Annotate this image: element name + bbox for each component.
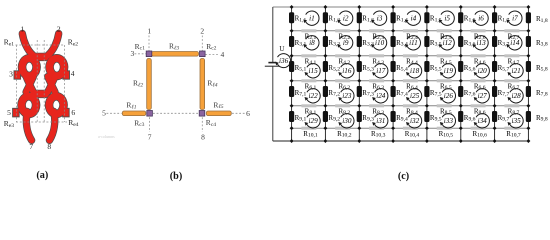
- svg-text:i18: i18: [410, 67, 420, 75]
- resistor R6,3: [369, 79, 384, 82]
- resistor R8,4: [403, 104, 418, 107]
- resistor R4,4: [403, 54, 418, 57]
- svg-text:6: 6: [246, 109, 250, 118]
- svg-text:i3: i3: [377, 15, 383, 23]
- column 3 stub to rail: [358, 128, 360, 141]
- svg-text:4: 4: [71, 69, 75, 78]
- svg-text:R4,7: R4,7: [508, 57, 520, 66]
- resistor R7,6: [458, 86, 463, 97]
- resistor R5,4: [391, 61, 396, 72]
- right link stroke A: [48, 77, 55, 93]
- node Rc4: [199, 111, 205, 117]
- resistor R10,7: [504, 127, 519, 130]
- mesh current i16: [338, 64, 354, 78]
- svg-text:Re2: Re2: [68, 38, 78, 48]
- node Rc3: [147, 111, 153, 117]
- battery long plate: [265, 65, 279, 67]
- svg-text:i22: i22: [309, 92, 319, 100]
- mesh current i26: [440, 89, 456, 103]
- column 1 wire: [291, 7, 293, 128]
- svg-text:R1,8: R1,8: [536, 15, 548, 24]
- dashed lead node 6: [232, 112, 246, 114]
- resistor R9,1: [289, 111, 294, 122]
- dashed lead node 4: [205, 53, 219, 55]
- node row6 col5: [425, 126, 429, 130]
- resistor R7,7: [492, 86, 497, 97]
- lead to terminal 8: [50, 112, 55, 141]
- svg-text:5: 5: [7, 108, 11, 117]
- resistor R6,2: [335, 79, 350, 82]
- node row1 col1: [290, 5, 294, 9]
- mesh current i27: [474, 89, 490, 103]
- resistor R7,1: [289, 86, 294, 97]
- svg-text:R8,6: R8,6: [474, 107, 486, 116]
- mesh current i23: [338, 89, 354, 103]
- resistor R3,2: [323, 36, 328, 47]
- left link stroke A outline: [26, 77, 33, 93]
- svg-text:R9,8: R9,8: [536, 114, 548, 123]
- svg-text:Rℓ4: Rℓ4: [207, 79, 217, 89]
- resistor R1,1: [289, 12, 294, 23]
- resistor R4,3: [369, 54, 384, 57]
- node row1 col3: [357, 5, 361, 9]
- left link stroke B: [26, 77, 33, 93]
- mesh current i3: [371, 11, 387, 25]
- left link stroke A: [26, 77, 33, 93]
- resistor R1,8: [526, 12, 531, 23]
- svg-text:Rc1: Rc1: [135, 42, 145, 52]
- resistor R8,3: [369, 104, 384, 107]
- svg-text:U: U: [279, 45, 285, 53]
- resistor R7,3: [357, 86, 362, 97]
- node row2 col1: [290, 29, 294, 33]
- svg-text:i29: i29: [309, 117, 319, 125]
- svg-text:R2,5: R2,5: [440, 32, 452, 41]
- resistor R2,1: [301, 29, 316, 32]
- resistor R9,6: [458, 111, 463, 122]
- node row2 col4: [391, 29, 395, 33]
- node row2 col8: [526, 29, 530, 33]
- mesh current i1: [303, 11, 319, 25]
- mesh current i15: [305, 64, 321, 78]
- svg-text:i7: i7: [512, 15, 518, 23]
- ring Re1 region left ring: [22, 58, 36, 76]
- svg-text:Rℓ1: Rℓ1: [126, 101, 136, 111]
- wire row4: [292, 80, 529, 82]
- svg-text:i35: i35: [512, 117, 522, 125]
- node row5 col8: [526, 104, 530, 108]
- svg-text:8: 8: [201, 132, 205, 141]
- resistor R4,5: [437, 54, 452, 57]
- resistor R9,5: [424, 111, 429, 122]
- svg-text:R10,1: R10,1: [303, 130, 318, 139]
- lead to terminal 1 outline: [22, 34, 33, 56]
- node row6 col2: [323, 126, 327, 130]
- svg-text:i15: i15: [309, 67, 319, 75]
- resistor R7,8: [526, 86, 531, 97]
- mesh current i2: [337, 11, 353, 25]
- svg-text:R10,4: R10,4: [405, 130, 420, 139]
- lead to terminal 7: [26, 112, 31, 141]
- resistor R4,6: [471, 54, 486, 57]
- resistor R10,4: [403, 127, 418, 130]
- node row2 col7: [493, 29, 497, 33]
- resistor R2,2: [335, 29, 350, 32]
- column 1 stub to rail: [291, 128, 293, 141]
- column 2 stub to rail: [324, 128, 326, 141]
- resistor R6,6: [471, 79, 486, 82]
- svg-text:R6,4: R6,4: [406, 82, 418, 91]
- resistor R1,3: [357, 12, 362, 23]
- resistor R4,7: [504, 54, 519, 57]
- resistor R7,4: [391, 86, 396, 97]
- node rail col2: [323, 139, 327, 143]
- svg-text:R3,8: R3,8: [536, 39, 548, 48]
- svg-text:2: 2: [57, 24, 61, 33]
- svg-text:R2,1: R2,1: [305, 32, 317, 41]
- svg-text:R5,8: R5,8: [536, 64, 548, 73]
- node row1 col2: [323, 5, 327, 9]
- mesh current i24: [372, 89, 388, 103]
- svg-text:R8,5: R8,5: [440, 107, 452, 116]
- mesh current i8: [303, 36, 319, 50]
- svg-text:3: 3: [9, 70, 13, 79]
- svg-text:R10,6: R10,6: [472, 130, 487, 139]
- lead to terminal 2: [48, 34, 59, 56]
- svg-text:R2,2: R2,2: [338, 32, 350, 41]
- svg-text:(a): (a): [36, 170, 48, 181]
- wire row2: [292, 30, 529, 32]
- mesh current i22: [305, 89, 321, 103]
- mesh current i7: [506, 11, 522, 25]
- left rail lower: [272, 67, 274, 141]
- ring left row2 outline: [22, 96, 36, 114]
- resistor R9,3: [357, 111, 362, 122]
- svg-text:i32: i32: [410, 117, 420, 125]
- svg-text:Re3: Re3: [4, 119, 14, 129]
- node rail col6: [459, 139, 463, 143]
- svg-text:Rℓ3: Rℓ3: [169, 42, 179, 52]
- wire row6: [292, 127, 529, 129]
- resistor R4,1: [301, 54, 316, 57]
- column 5 stub to rail: [426, 128, 428, 141]
- subfigure (a) red meander structure: [13, 34, 70, 141]
- right link stroke B: [48, 77, 55, 93]
- resistor R5,8: [526, 61, 531, 72]
- node row1 col6: [459, 5, 463, 9]
- lead to terminal 2 outline: [48, 34, 59, 56]
- node row4 col3: [357, 79, 361, 83]
- resistor R3,8: [526, 36, 531, 47]
- svg-text:R10,7: R10,7: [506, 130, 521, 139]
- right link stroke B outline: [48, 77, 55, 93]
- resistor R3,4: [391, 36, 396, 47]
- lead to terminal 7 outline: [26, 112, 31, 141]
- column 8 stub to rail: [527, 128, 529, 141]
- svg-text:Rc2: Rc2: [206, 42, 216, 52]
- column 7 wire: [494, 7, 496, 128]
- resistor R5,5: [424, 61, 429, 72]
- mesh current i14: [506, 36, 522, 50]
- node row3 col8: [526, 54, 530, 58]
- mesh current i32: [406, 114, 422, 128]
- node row2 col6: [459, 29, 463, 33]
- mesh current i11: [405, 36, 421, 50]
- mesh current i13: [473, 36, 489, 50]
- svg-text:i17: i17: [376, 67, 386, 75]
- ring right row2 outline: [49, 96, 63, 114]
- node row2 col2: [323, 29, 327, 33]
- ring right row1 outline: [50, 58, 64, 76]
- resistor R10,2: [335, 127, 350, 130]
- node rail col5: [425, 139, 429, 143]
- dashed vertical inner-left cell line: [36, 40, 38, 122]
- node row6 col3: [357, 126, 361, 130]
- svg-text:R8,3: R8,3: [372, 107, 384, 116]
- resistor R9,4: [391, 111, 396, 122]
- dashed lead node 8: [201, 117, 203, 132]
- svg-text:Rc4: Rc4: [206, 118, 216, 128]
- svg-text:(c): (c): [398, 171, 409, 182]
- mesh current i18: [406, 64, 422, 78]
- svg-text:R8,2: R8,2: [338, 107, 350, 116]
- crossbar row 1 outline: [36, 53, 46, 61]
- mesh current i6: [473, 11, 489, 25]
- node row6 col1: [290, 126, 294, 130]
- node row5 col6: [459, 104, 463, 108]
- resistor R8,7: [504, 104, 519, 107]
- svg-text:6: 6: [71, 108, 75, 117]
- subfigure (b) schematic: [107, 36, 247, 133]
- svg-text:i28: i28: [512, 92, 522, 100]
- ring right row2: [49, 96, 63, 114]
- svg-text:R6,5: R6,5: [440, 82, 452, 91]
- top wire row1: [273, 6, 529, 8]
- resistor R6,7: [504, 79, 519, 82]
- mesh current i34: [474, 114, 490, 128]
- node row6 col6: [459, 126, 463, 130]
- svg-text:i25: i25: [410, 92, 420, 100]
- svg-text:i21: i21: [512, 67, 521, 75]
- column 7 stub to rail: [494, 128, 496, 141]
- node row3 col7: [493, 54, 497, 58]
- mesh current i36: [275, 54, 290, 68]
- svg-text:i36: i36: [279, 57, 289, 65]
- node rail col3: [357, 139, 361, 143]
- resistor R4,2: [335, 54, 350, 57]
- svg-text:R10,3: R10,3: [371, 130, 386, 139]
- column 6 stub to rail: [460, 128, 462, 141]
- mesh current i19: [440, 64, 456, 78]
- pad terminal 3: [14, 71, 21, 79]
- pad terminal 6: [63, 108, 70, 117]
- svg-text:i30: i30: [342, 117, 352, 125]
- svg-text:i6: i6: [478, 15, 484, 23]
- resistor R3,6: [458, 36, 463, 47]
- svg-text:8: 8: [47, 142, 51, 151]
- svg-text:R6,3: R6,3: [372, 82, 384, 91]
- node row3 col1: [290, 54, 294, 58]
- svg-text:R6,1: R6,1: [305, 82, 317, 91]
- column 8 wire: [527, 7, 529, 128]
- mesh current i29: [305, 114, 321, 128]
- svg-text:R2,4: R2,4: [406, 32, 418, 41]
- resistor R10,3: [369, 127, 384, 130]
- resistor R10,5: [437, 127, 452, 130]
- node row4 col1: [290, 79, 294, 83]
- svg-text:R6,2: R6,2: [338, 82, 350, 91]
- svg-text:i26: i26: [444, 92, 454, 100]
- svg-text:i2: i2: [343, 15, 349, 23]
- node row4 col4: [391, 79, 395, 83]
- crossbar row 2: [36, 90, 46, 97]
- svg-text:1: 1: [20, 24, 24, 33]
- node row3 col4: [391, 54, 395, 58]
- node row1 col8: [526, 5, 530, 9]
- svg-text:i19: i19: [444, 67, 454, 75]
- resistor R10,6: [471, 127, 486, 130]
- node row3 col5: [425, 54, 429, 58]
- mesh current i33: [440, 114, 456, 128]
- svg-text:i31: i31: [376, 117, 385, 125]
- svg-text:R2,3: R2,3: [372, 32, 384, 41]
- node row4 col8: [526, 79, 530, 83]
- svg-text:R10,2: R10,2: [337, 130, 352, 139]
- svg-text:R10,5: R10,5: [439, 130, 454, 139]
- resistor R8,5: [437, 104, 452, 107]
- svg-text:R4,5: R4,5: [440, 57, 452, 66]
- right link stroke A outline: [48, 77, 55, 93]
- dashed vertical inner-right cell line: [43, 40, 45, 122]
- svg-text:Re1: Re1: [4, 38, 14, 48]
- wire row5: [292, 105, 529, 107]
- svg-text:i23: i23: [342, 92, 352, 100]
- svg-text:Re4: Re4: [68, 118, 78, 128]
- resistor R8,1: [301, 104, 316, 107]
- resistor R3,5: [424, 36, 429, 47]
- svg-text:R8,4: R8,4: [406, 107, 418, 116]
- dashed horizontal top cell line: [16, 44, 65, 46]
- resistor R9,7: [492, 111, 497, 122]
- mesh current i4: [405, 11, 421, 25]
- mesh current i12: [439, 36, 455, 50]
- left rail upper: [272, 7, 274, 62]
- bottom rail: [273, 140, 529, 142]
- mesh current i30: [338, 114, 354, 128]
- mesh current i21: [508, 64, 524, 78]
- resistor R2,4: [403, 29, 418, 32]
- column 2 wire: [324, 7, 326, 128]
- node Rc1: [146, 51, 152, 57]
- node rail col8: [526, 139, 530, 143]
- svg-text:R4,4: R4,4: [406, 57, 418, 66]
- svg-text:i27: i27: [478, 92, 488, 100]
- mesh current i20: [474, 64, 490, 78]
- svg-text:i33: i33: [444, 117, 454, 125]
- resistor R5,3: [357, 61, 362, 72]
- svg-text:R6,7: R6,7: [508, 82, 520, 91]
- mesh current i31: [372, 114, 388, 128]
- node row2 col3: [357, 29, 361, 33]
- resistor R6,5: [437, 79, 452, 82]
- resistor Rl4: [200, 59, 205, 110]
- svg-text:R2,6: R2,6: [474, 32, 486, 41]
- mesh current i17: [372, 64, 388, 78]
- mesh current i25: [406, 89, 422, 103]
- column 4 wire: [392, 7, 394, 128]
- lead to terminal 1: [22, 34, 33, 56]
- column 6 wire: [460, 7, 462, 128]
- svg-text:i24: i24: [376, 92, 386, 100]
- svg-text:R6,6: R6,6: [474, 82, 486, 91]
- node row6 col7: [493, 126, 497, 130]
- svg-text:i4: i4: [411, 15, 417, 23]
- resistor R1,4: [391, 12, 396, 23]
- svg-text:Rc3: Rc3: [134, 118, 144, 128]
- resistor R5,6: [458, 61, 463, 72]
- mesh current i35: [508, 114, 524, 128]
- resistor R3,7: [492, 36, 497, 47]
- dashed lead node 3: [135, 53, 147, 55]
- svg-text:2: 2: [200, 27, 204, 36]
- svg-text:i1: i1: [309, 15, 315, 23]
- resistor Rl2: [147, 59, 152, 110]
- svg-text:R4,1: R4,1: [305, 57, 317, 66]
- node row2 col5: [425, 29, 429, 33]
- resistor R1,7: [492, 12, 497, 23]
- svg-text:Rℓ5: Rℓ5: [213, 100, 223, 110]
- svg-text:7: 7: [29, 142, 33, 151]
- dashed lead node 1: [148, 36, 150, 51]
- resistor R1,5: [424, 12, 429, 23]
- resistor R1,2: [323, 12, 328, 23]
- svg-text:(b): (b): [170, 171, 182, 182]
- ring right row1: [50, 58, 64, 76]
- svg-text:7: 7: [148, 132, 152, 141]
- resistor R2,6: [471, 29, 486, 32]
- lead to terminal 8 outline: [50, 112, 55, 141]
- column 3 wire: [358, 7, 360, 128]
- mesh current i28: [508, 89, 524, 103]
- dashed lead node 7: [149, 117, 151, 132]
- dashed lead node 2: [201, 36, 203, 51]
- svg-text:R8,1: R8,1: [305, 107, 317, 116]
- svg-text:R4,3: R4,3: [372, 57, 384, 66]
- node row5 col7: [493, 104, 497, 108]
- node rail col7: [493, 139, 497, 143]
- column 4 stub to rail: [392, 128, 394, 141]
- crossbar row 1: [36, 53, 46, 60]
- node row1 col7: [493, 5, 497, 9]
- svg-text:i16: i16: [342, 67, 352, 75]
- left link stroke B outline: [26, 77, 33, 93]
- dashed vertical right cell line: [64, 45, 66, 122]
- resistor R10,1: [301, 127, 316, 130]
- node rail col1: [290, 139, 294, 143]
- subfigure (c) resistor network: [273, 7, 529, 128]
- battery short plate: [268, 62, 276, 64]
- dashed horizontal bottom cell line: [16, 121, 67, 123]
- wire row3: [292, 55, 529, 57]
- svg-text:R8,7: R8,7: [508, 107, 520, 116]
- dashed lead node 5: [107, 112, 122, 114]
- resistor R2,3: [369, 29, 384, 32]
- ring left row2: [22, 96, 36, 114]
- svg-text:a-columns: a-columns: [98, 134, 115, 139]
- node row4 col2: [323, 79, 327, 83]
- crossbar row 2 outline: [36, 90, 46, 98]
- svg-text:R2,7: R2,7: [508, 32, 520, 41]
